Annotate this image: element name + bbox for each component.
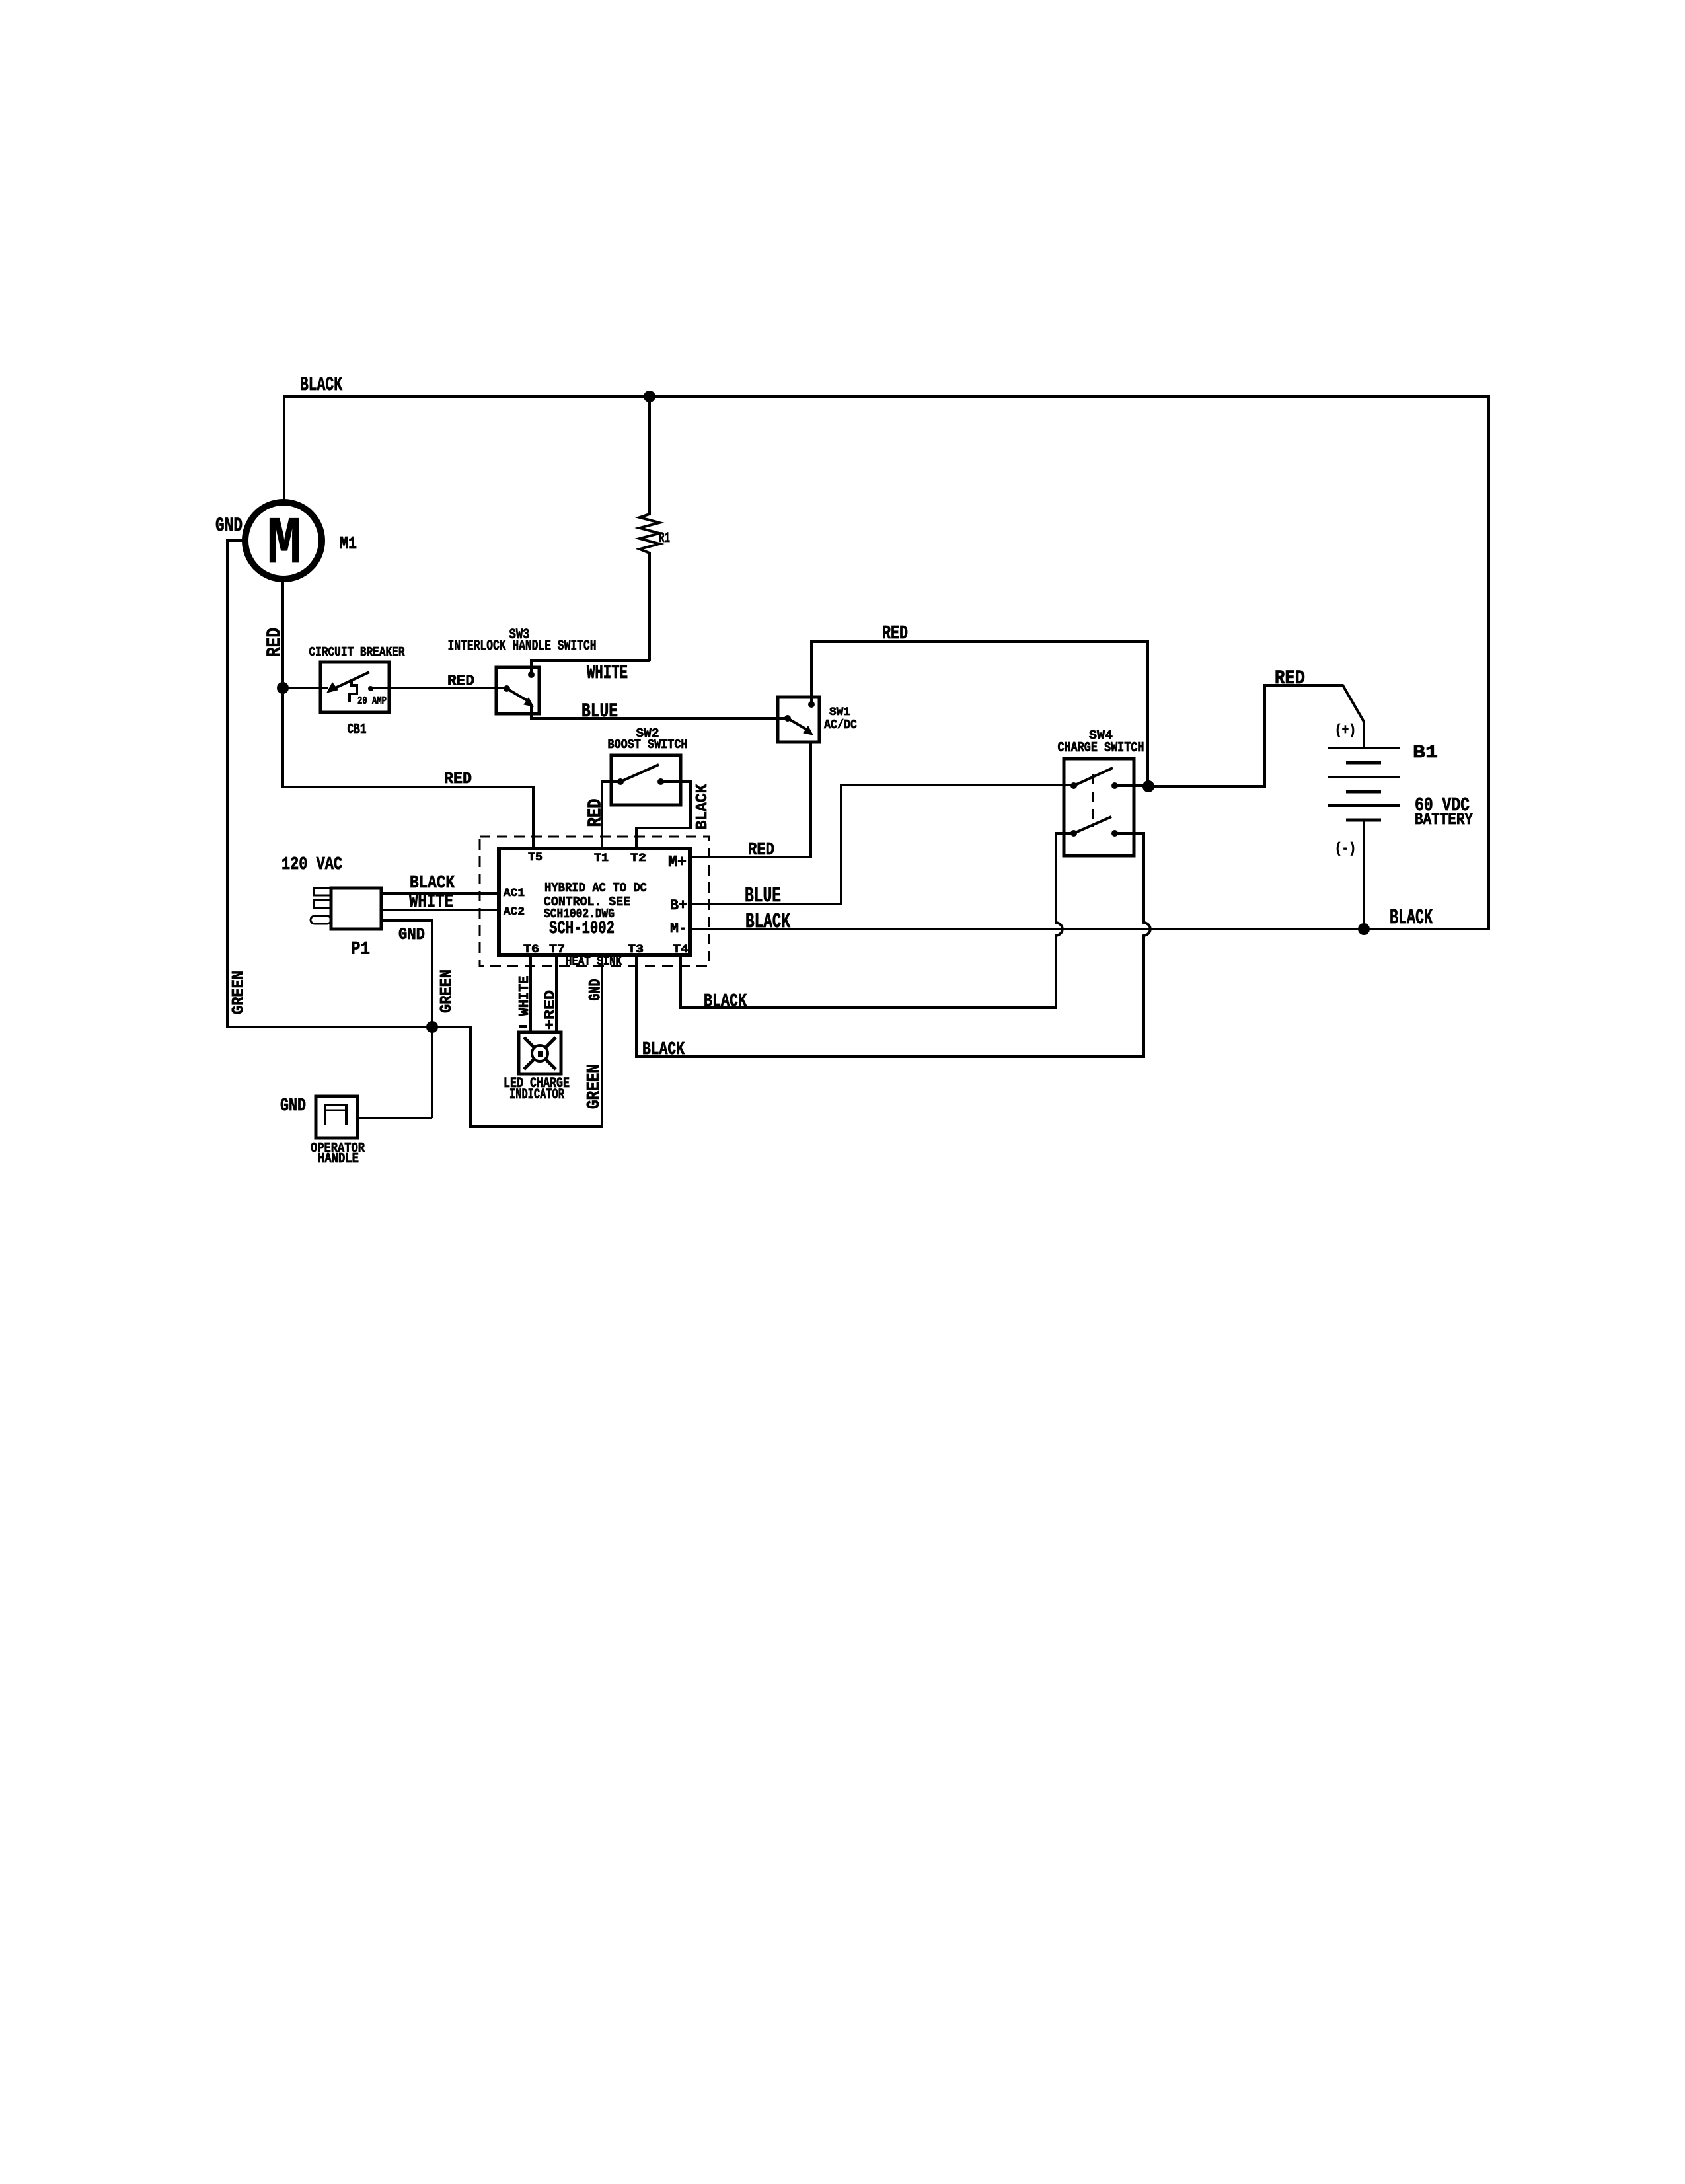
svg-text:M+: M+ — [668, 854, 687, 872]
svg-text:20 AMP: 20 AMP — [357, 695, 387, 707]
wire R1 bottom lead — [648, 552, 651, 661]
wire GREEN junction to heat sink ground — [432, 956, 602, 1127]
svg-text:WHITE: WHITE — [409, 891, 453, 913]
svg-text:(+): (+) — [1335, 722, 1356, 739]
wire RED CB1 to SW3 — [371, 687, 507, 689]
svg-text:RED: RED — [447, 672, 474, 689]
svg-text:AC1: AC1 — [504, 887, 525, 900]
wire GREEN junction to motor ground — [227, 1026, 432, 1028]
switch SW4 charge switch — [1064, 759, 1134, 856]
resistor R1 — [640, 514, 659, 553]
svg-text:RED: RED — [263, 628, 285, 657]
svg-text:BLACK: BLACK — [1390, 907, 1433, 930]
node junction top bus / R1 tap — [644, 391, 655, 402]
node junction motor lead / CB1 — [277, 682, 289, 694]
svg-text:BLACK: BLACK — [642, 1040, 685, 1060]
wire motor ground stub — [227, 539, 245, 542]
LED charge indicator — [519, 1032, 561, 1074]
svg-text:T4: T4 — [673, 943, 689, 956]
svg-text:RED: RED — [585, 799, 607, 827]
wire black right side down to battery negative bus — [1487, 395, 1490, 930]
svg-text:BOOST SWITCH: BOOST SWITCH — [608, 737, 688, 752]
wire operator handle to green junction — [357, 1117, 432, 1119]
svg-text:GND: GND — [280, 1096, 306, 1116]
wire motor M1 top lead — [283, 396, 285, 502]
svg-text:BLUE: BLUE — [745, 885, 781, 908]
wire BLACK P1 to AC1 — [381, 892, 499, 895]
switch SW3 interlock handle switch — [496, 667, 539, 714]
svg-text:+RED: +RED — [543, 990, 558, 1030]
wire motor M1 bottom lead (red) — [281, 579, 284, 788]
svg-text:T6: T6 — [523, 943, 539, 956]
svg-text:T7: T7 — [549, 943, 565, 956]
wire BLACK SW4 lower pole to T4 (with hop) — [681, 833, 1074, 1008]
svg-text:M: M — [267, 507, 301, 583]
svg-text:P1: P1 — [351, 940, 370, 960]
operator handle — [316, 1096, 357, 1138]
svg-text:SW1: SW1 — [829, 706, 850, 719]
svg-text:GREEN: GREEN — [585, 1064, 605, 1109]
wire R1 top lead — [648, 396, 651, 515]
wire WHITE SW3 top to R1 bottom — [531, 661, 650, 675]
svg-text:INTERLOCK HANDLE SWITCH: INTERLOCK HANDLE SWITCH — [448, 637, 597, 654]
svg-text:CB1: CB1 — [348, 722, 367, 737]
svg-text:RED: RED — [444, 771, 472, 788]
wire junction to CB1 — [283, 687, 328, 689]
svg-text:BLACK: BLACK — [704, 992, 747, 1012]
svg-text:R1: R1 — [659, 529, 670, 546]
svg-text:CHARGE SWITCH: CHARGE SWITCH — [1058, 741, 1144, 756]
svg-text:SCH-1002: SCH-1002 — [549, 919, 615, 939]
heat sink dashed boundary — [480, 837, 709, 966]
svg-text:BLACK: BLACK — [694, 784, 712, 830]
svg-text:AC2: AC2 — [504, 905, 525, 919]
wire BLACK SW2 right to T2 — [636, 782, 691, 848]
wire RED T7 to LED — [555, 955, 558, 1032]
control box SCH-1002 — [499, 848, 690, 955]
node junction SW4 / battery positive — [1142, 780, 1154, 792]
svg-text:B+: B+ — [670, 897, 687, 914]
svg-text:T2: T2 — [630, 852, 646, 865]
svg-text:HANDLE: HANDLE — [318, 1152, 359, 1167]
svg-text:120 VAC: 120 VAC — [281, 855, 342, 875]
svg-text:BLACK: BLACK — [745, 911, 790, 934]
wire RED battery positive feed — [1148, 685, 1364, 786]
svg-text:GREEN: GREEN — [229, 971, 248, 1014]
svg-text:HEAT SINK: HEAT SINK — [566, 954, 622, 969]
svg-text:T1: T1 — [594, 852, 609, 865]
node junction battery negative on M- bus — [1358, 923, 1370, 935]
svg-text:GND: GND — [215, 514, 243, 537]
wire battery negative lead — [1363, 820, 1365, 929]
wire WHITE T6 to LED — [529, 955, 532, 1032]
svg-text:HYBRID AC TO DC: HYBRID AC TO DC — [544, 881, 647, 895]
svg-text:RED: RED — [748, 841, 774, 860]
svg-text:RED: RED — [1275, 667, 1305, 689]
svg-text:AC/DC: AC/DC — [824, 718, 857, 732]
svg-text:BLUE: BLUE — [581, 700, 618, 722]
wire SW4 pole1 to junction — [1115, 784, 1150, 787]
wire BLUE B+ to SW4 — [691, 785, 1074, 904]
polarity minus tick (T6) — [519, 1025, 527, 1028]
svg-text:(-): (-) — [1335, 840, 1356, 857]
wire RED M+ to SW1 bottom — [691, 742, 811, 857]
svg-text:CIRCUIT BREAKER: CIRCUIT BREAKER — [309, 645, 405, 659]
circuit breaker CB1 — [320, 662, 389, 712]
wire RED SW1 top to SW4 junction — [811, 642, 1148, 786]
svg-text:WHITE: WHITE — [587, 661, 628, 684]
svg-text:M-: M- — [670, 920, 687, 937]
svg-text:GND: GND — [586, 979, 605, 1001]
svg-text:GND: GND — [398, 925, 425, 944]
wire BLUE SW3 bottom to SW1 — [531, 704, 788, 718]
wire GND P1 green down — [381, 921, 432, 1118]
svg-text:B1: B1 — [1413, 743, 1438, 763]
svg-text:INDICATOR: INDICATOR — [509, 1086, 564, 1103]
switch SW1 AC/DC — [778, 697, 819, 742]
svg-text:WHITE: WHITE — [517, 976, 533, 1016]
plug P1 120 VAC — [331, 888, 381, 929]
wire BLACK SW4 lower pole to T3 (with hop) — [636, 833, 1150, 1057]
svg-text:GREEN: GREEN — [438, 969, 456, 1013]
wire RED junction to T5 — [283, 688, 533, 848]
svg-text:T5: T5 — [528, 851, 543, 864]
svg-text:T3: T3 — [628, 943, 644, 956]
wire GREEN motor ground down left side — [226, 539, 229, 1028]
motor M1 — [245, 502, 322, 579]
svg-text:M1: M1 — [340, 535, 357, 554]
node junction green ground — [426, 1021, 438, 1033]
battery B1 plates — [1328, 747, 1400, 749]
wire RED SW2 left to T1 — [602, 782, 620, 848]
switch SW2 boost switch — [611, 755, 681, 805]
svg-text:RED: RED — [882, 622, 908, 644]
svg-text:BATTERY: BATTERY — [1415, 810, 1474, 829]
wire BLACK M- bus to battery negative — [691, 928, 1490, 930]
wire BLACK top bus (motor to battery return) — [283, 395, 1490, 398]
svg-text:BLACK: BLACK — [300, 373, 342, 396]
wire WHITE P1 to AC2 — [381, 909, 499, 911]
